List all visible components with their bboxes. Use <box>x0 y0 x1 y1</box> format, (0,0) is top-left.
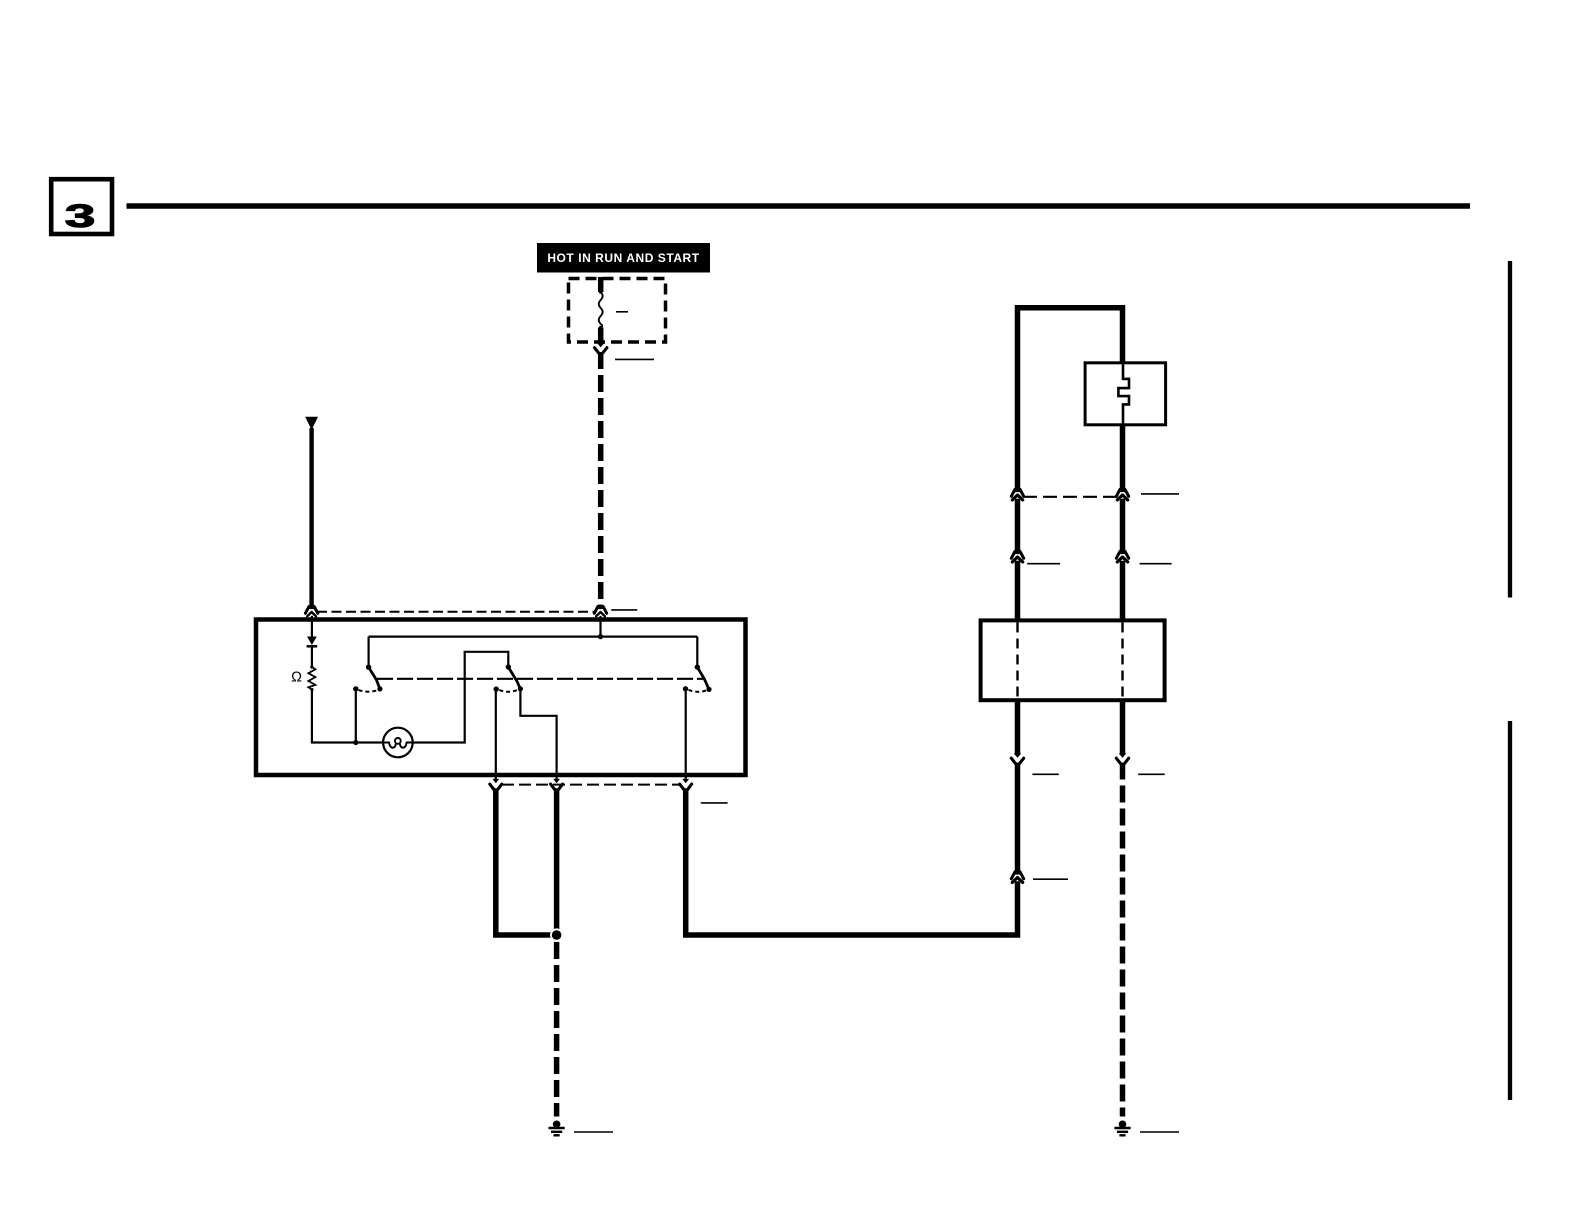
wire fuse to radio (dashed) <box>598 352 604 607</box>
radio output connector 3 <box>680 779 692 789</box>
middle switch blade <box>508 667 520 689</box>
internal top bus <box>369 635 698 637</box>
wire fuse pin into radio <box>599 616 601 637</box>
wire amp right pin down <box>1120 701 1126 755</box>
label line at radio top connector <box>611 609 637 611</box>
label line below fuse connector <box>615 358 654 360</box>
label HOT IN RUN AND START <box>537 243 710 273</box>
connector level2 left <box>1011 550 1023 562</box>
middle blade end dot <box>518 686 523 691</box>
connector inline at 877 <box>1011 870 1023 882</box>
radio unit box <box>256 620 746 776</box>
amp internal dashed pin line left <box>1016 623 1018 699</box>
resistor <box>308 665 315 691</box>
label line ground right <box>1140 1131 1179 1133</box>
wire diode to resistor <box>311 646 313 667</box>
wire junction to left contact <box>355 691 357 743</box>
wire lamp to middle switch <box>413 652 509 743</box>
middle switch pivot dot <box>506 664 511 669</box>
connector below amp right <box>1116 753 1128 763</box>
svg-text:HOT IN RUN AND START: HOT IN RUN AND START <box>547 251 699 265</box>
wire level1 to level2 right <box>1120 499 1126 552</box>
label line level1 <box>1141 493 1179 495</box>
supply loop wire thick <box>1018 308 1123 490</box>
connector below amp left <box>1011 753 1023 763</box>
label line level2 right <box>1140 563 1172 565</box>
left switch pivot feed <box>368 637 370 668</box>
connector level1 dashed line <box>1023 496 1117 498</box>
wire level2 to amp left <box>1015 561 1021 619</box>
connector below fuse <box>595 343 607 353</box>
ground right <box>1114 1121 1130 1136</box>
connector dashed line radio top <box>317 611 594 613</box>
label line ground left <box>574 1131 613 1133</box>
right blade end dot <box>706 687 711 692</box>
wire amp left pin down <box>1015 701 1021 755</box>
svg-text:3: 3 <box>65 198 96 234</box>
wire middle contact to pin <box>495 692 497 780</box>
svg-text:Ω: Ω <box>291 670 302 686</box>
left switch blade <box>369 667 380 689</box>
wire middle blade to pin <box>520 691 556 780</box>
amp internal dashed pin line right <box>1121 623 1123 699</box>
wire breaker to level1 <box>1120 425 1126 490</box>
middle switch dashed link <box>499 690 517 692</box>
label line below amp left <box>1032 773 1058 775</box>
lamp <box>383 728 413 758</box>
right switch pivot dot <box>695 664 700 669</box>
label line below radio connector <box>701 802 728 804</box>
wire radio pin1 thick <box>496 788 557 935</box>
wire level2 to amp right <box>1120 561 1126 619</box>
right switch feed <box>696 637 698 668</box>
splice junction <box>550 928 563 941</box>
ground wire left dashed <box>554 942 560 1117</box>
middle contact dot <box>494 686 499 691</box>
wire connector877 up to connector760 <box>1015 763 1021 873</box>
left switch pivot dot <box>366 665 371 670</box>
right switch blade <box>697 667 709 689</box>
connector dashed line below radio <box>502 784 680 786</box>
radio output connector 1 <box>490 779 502 789</box>
fuse box (dashed) <box>569 279 666 343</box>
wire radio pin2 thick <box>554 788 560 935</box>
connector level1 left <box>1011 488 1023 500</box>
diode polarity symbol <box>307 637 318 647</box>
right contact dot <box>683 686 688 691</box>
fuse element <box>599 277 603 344</box>
switch mechanical linkage dashed <box>377 678 704 680</box>
wire level1 to level2 left <box>1015 499 1021 552</box>
horizontal rule <box>127 203 1471 209</box>
connector at radio top fuse wire <box>594 605 606 617</box>
circuit breaker box <box>1085 363 1166 425</box>
right switch dashed link <box>689 690 707 692</box>
right margin rule lower <box>1508 721 1512 1100</box>
antenna <box>305 417 318 607</box>
connector antenna to radio <box>305 605 317 617</box>
right margin rule upper <box>1508 261 1512 598</box>
wire antenna pin to diode <box>311 616 313 637</box>
junction dot lamp row <box>353 740 358 745</box>
connector level1 right <box>1116 488 1128 500</box>
circuit breaker element <box>1118 362 1129 425</box>
wire radio pin3 thick to amplifier <box>686 788 1018 935</box>
junction dot fuse feed <box>598 634 603 639</box>
label line level2 left <box>1027 563 1060 565</box>
left switch dashed link <box>359 690 378 692</box>
label line below amp right <box>1138 773 1165 775</box>
wire resistor to lamp row <box>312 690 384 743</box>
amplifier box <box>981 620 1165 700</box>
diagram number box "3" <box>51 179 112 234</box>
left switch blade end dot <box>377 686 382 691</box>
label line connector 877 <box>1033 878 1068 880</box>
fuse rating label line <box>616 311 628 313</box>
connector level2 right <box>1116 550 1128 562</box>
radio output connector 2 <box>551 779 563 789</box>
wire right contact to pin <box>685 692 687 780</box>
left switch contact dot <box>353 686 358 691</box>
ground wire right dashed <box>1120 763 1126 1117</box>
ground left <box>549 1121 565 1136</box>
